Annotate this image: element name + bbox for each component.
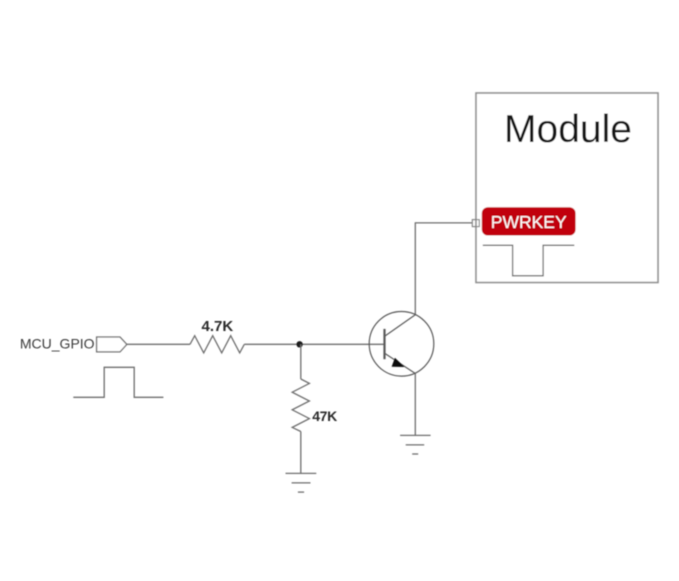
svg-text:MCU_GPIO: MCU_GPIO	[20, 336, 95, 352]
node junction dot	[296, 341, 302, 347]
Q1 collector diagonal	[385, 315, 415, 336]
svg-text:4.7K: 4.7K	[202, 318, 234, 335]
MCU_GPIO waveform (positive pulse)	[73, 367, 163, 397]
Q1 body circle	[369, 312, 434, 377]
svg-text:Module: Module	[504, 108, 632, 151]
resistor R2 47K (vertical zigzag)	[292, 379, 309, 432]
wire: resistor R1 to transistor base	[244, 343, 384, 345]
resistor R1 4.7K (horizontal zigzag)	[190, 336, 244, 353]
PWRKEY pin label (red)	[482, 207, 576, 235]
PWRKEY waveform (negative pulse)	[483, 245, 575, 275]
wire: resistor R2 down to ground	[300, 432, 302, 474]
Q1 base bar	[383, 329, 385, 359]
ground symbol (below Q1 emitter)	[400, 435, 431, 454]
MCU_GPIO port symbol	[97, 337, 127, 352]
transistor Q1 (NPN)	[369, 312, 434, 377]
wire: corner down to transistor collector (vertical)	[414, 222, 416, 314]
module block U1	[476, 93, 658, 283]
svg-text:PWRKEY: PWRKEY	[491, 212, 567, 232]
Q1 emitter diagonal	[385, 354, 415, 374]
svg-text:47K: 47K	[312, 408, 337, 424]
wire: junction down to resistor R2	[300, 344, 302, 379]
ground symbol (below R2)	[286, 473, 317, 492]
Q1 emitter arrow	[392, 358, 405, 367]
wire: port to resistor R1	[127, 343, 190, 345]
wire: PWRKEY pin to corner (horizontal)	[415, 222, 472, 224]
wire: emitter down to ground	[414, 374, 416, 436]
pin square on module left edge	[472, 220, 479, 227]
